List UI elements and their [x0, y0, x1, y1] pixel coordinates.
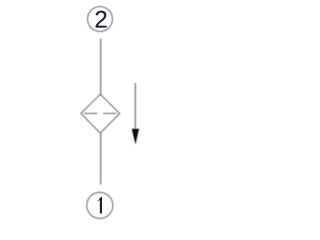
- flow direction arrowhead: [132, 129, 139, 145]
- flow direction arrow shaft: [134, 83, 136, 131]
- wire bottom segment: [100, 133, 102, 185]
- port 1 circle: [87, 192, 113, 218]
- svg-text:2: 2: [94, 7, 107, 34]
- wire top segment: [100, 39, 102, 96]
- port 2 circle: [88, 7, 113, 32]
- diamond element (filter symbol): [81, 94, 120, 133]
- port 1 label: [98, 197, 102, 214]
- dashed separator line: [84, 112, 117, 114]
